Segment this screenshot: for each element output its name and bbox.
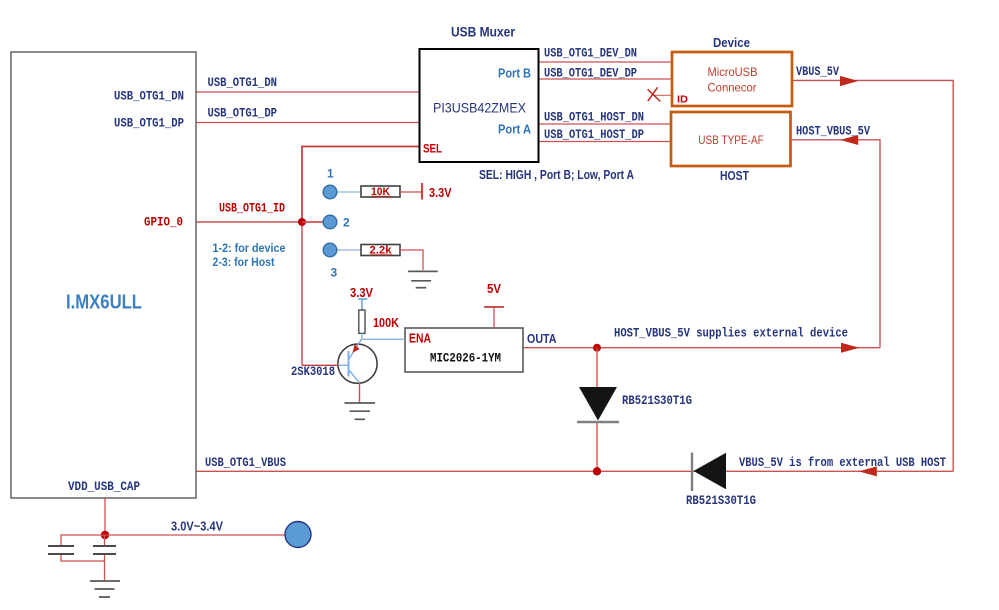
jumper pin 3 stub wire	[336, 249, 361, 251]
wire emitter of Q1 to ground	[359, 383, 361, 403]
capacitor C2	[93, 546, 116, 554]
svg-text:MicroUSB: MicroUSB	[708, 65, 758, 79]
power 3.3V bar	[421, 183, 423, 200]
svg-text:USB_OTG1_DN: USB_OTG1_DN	[114, 90, 184, 104]
node junction VBUS/diode D1	[593, 467, 601, 475]
jumper pin 1 stub wire	[336, 191, 361, 193]
svg-text:USB TYPE-AF: USB TYPE-AF	[698, 133, 764, 147]
svg-text:Connecor: Connecor	[708, 80, 757, 94]
arrow HOST_VBUS_5V left	[840, 135, 858, 145]
svg-text:USB_OTG1_VBUS: USB_OTG1_VBUS	[205, 456, 286, 470]
IC U2 MIC2026-1YM box	[405, 328, 523, 372]
svg-text:Port A: Port A	[498, 123, 531, 137]
wire USB_OTG1_HOST_DN	[539, 123, 671, 125]
svg-text:USB_OTG1_HOST_DP: USB_OTG1_HOST_DP	[544, 128, 644, 142]
svg-text:I.MX6ULL: I.MX6ULL	[66, 292, 142, 314]
node junction OUTA/diode D1	[593, 344, 601, 352]
ground below caps	[90, 581, 120, 597]
wire GPIO_0 / USB_OTG1_ID	[196, 221, 324, 223]
svg-text:HOST_VBUS_5V: HOST_VBUS_5V	[796, 125, 870, 139]
ground below Q1	[345, 403, 376, 419]
resistor R3 100K vertical	[359, 310, 365, 333]
svg-text:ENA: ENA	[409, 332, 431, 346]
svg-text:USB_OTG1_ID: USB_OTG1_ID	[219, 202, 285, 216]
svg-text:2SK3018: 2SK3018	[291, 365, 335, 379]
wire USB_OTG1_DN	[196, 91, 420, 93]
svg-text:USB_OTG1_DP: USB_OTG1_DP	[114, 117, 184, 131]
wire USB_OTG1_HOST_DP	[539, 141, 671, 143]
svg-text:SEL: SEL	[423, 142, 442, 156]
IC U-MUX PI3USB42ZMEX box	[420, 49, 539, 162]
wire USB_OTG1_DEV_DN	[539, 61, 672, 63]
wire VDD_USB_CAP	[104, 498, 106, 535]
wire 3.0V~3.4V to supply pin	[105, 534, 285, 536]
wire USB_OTG1_DEV_DP	[539, 78, 672, 80]
wire USB_OTG1_VBUS	[196, 470, 953, 472]
wire 10K to 3.3V	[400, 191, 422, 193]
svg-text:3.3V: 3.3V	[429, 186, 452, 200]
svg-text:Port B: Port B	[498, 67, 531, 81]
wire USB_OTG1_DP	[196, 122, 420, 124]
wire SEL net	[302, 147, 420, 223]
transistor Q1 2SK3018	[338, 344, 377, 383]
connector J-DEV MicroUSB box	[672, 52, 792, 106]
svg-text:1-2: for device: 1-2: for device	[213, 241, 286, 255]
resistor R1 10K	[361, 186, 400, 197]
wire 100K to ENA	[362, 333, 405, 339]
wire junction to pin 2	[302, 221, 324, 223]
svg-text:RB521S30T1G: RB521S30T1G	[686, 494, 756, 508]
wire cap branch	[61, 535, 105, 546]
svg-text:USB_OTG1_DEV_DP: USB_OTG1_DEV_DP	[544, 67, 637, 81]
node junction SEL/ID	[298, 218, 306, 226]
svg-text:2: 2	[343, 216, 350, 230]
svg-text:VBUS_5V: VBUS_5V	[796, 65, 839, 79]
svg-text:3: 3	[331, 266, 338, 280]
svg-text:HOST_VBUS_5V supplies external: HOST_VBUS_5V supplies external device	[614, 327, 848, 341]
svg-text:USB_OTG1_DEV_DN: USB_OTG1_DEV_DN	[544, 47, 637, 61]
svg-text:USB_OTG1_DP: USB_OTG1_DP	[208, 107, 278, 121]
svg-text:USB_OTG1_DN: USB_OTG1_DN	[208, 76, 278, 90]
X mark no-connect on ID	[648, 87, 661, 101]
svg-text:SEL: HIGH , Port B; Low, Port: SEL: HIGH , Port B; Low, Port A	[479, 168, 634, 182]
ground below R2	[408, 271, 438, 287]
svg-text:PI3USB42ZMEX: PI3USB42ZMEX	[433, 100, 527, 116]
svg-text:1: 1	[327, 167, 334, 181]
jumper pin 1	[323, 185, 337, 199]
wire base of Q1	[302, 364, 338, 366]
power 3.3V tick at 100K	[358, 298, 367, 300]
svg-text:Device: Device	[713, 36, 750, 50]
resistor R2 2.2k	[361, 245, 400, 256]
capacitor C1	[48, 546, 74, 554]
svg-text:3.3V: 3.3V	[350, 286, 374, 300]
wire HOST_VBUS_5V	[792, 140, 880, 348]
svg-text:VDD_USB_CAP: VDD_USB_CAP	[68, 480, 140, 494]
arrow VBUS_5V from host left	[859, 466, 877, 476]
svg-text:ID: ID	[677, 95, 688, 106]
svg-text:RB521S30T1G: RB521S30T1G	[622, 394, 692, 408]
jumper pin 2	[323, 215, 337, 229]
connector J-HOST USB TYPE-AF box	[671, 112, 791, 166]
arrow OUTA supplies right	[841, 343, 860, 353]
svg-text:3.0V~3.4V: 3.0V~3.4V	[171, 520, 224, 534]
svg-text:OUTA: OUTA	[527, 332, 557, 346]
jumper pin 3	[323, 243, 337, 257]
supply pin circle	[285, 522, 311, 548]
svg-text:100K: 100K	[373, 316, 399, 330]
wire 2.2k to ground	[400, 250, 423, 270]
svg-text:VBUS_5V is from external USB H: VBUS_5V is from external USB HOST	[739, 456, 946, 470]
node junction VDD cap	[101, 531, 109, 539]
svg-text:HOST: HOST	[720, 169, 749, 183]
wire OUTA to HOST_VBUS_5V	[523, 347, 880, 349]
IC U-IMX I.MX6ULL box	[11, 52, 196, 498]
svg-text:5V: 5V	[487, 282, 502, 296]
svg-text:MIC2026-1YM: MIC2026-1YM	[430, 351, 501, 366]
svg-text:2-3: for Host: 2-3: for Host	[213, 255, 275, 269]
svg-text:GPIO_0: GPIO_0	[144, 216, 183, 230]
arrow VBUS_5V right	[840, 76, 858, 86]
diode D2 RB521S30T1G horizontal	[691, 453, 693, 492]
svg-text:USB Muxer: USB Muxer	[451, 24, 515, 40]
diode D1 RB521S30T1G vertical	[579, 387, 617, 421]
wire VBUS_5V	[793, 80, 953, 471]
power 5V bar at MIC2026	[484, 306, 504, 308]
wire diode D1 branch	[596, 348, 598, 387]
svg-text:USB_OTG1_HOST_DN: USB_OTG1_HOST_DN	[544, 111, 644, 125]
wire ID stub	[653, 94, 672, 96]
